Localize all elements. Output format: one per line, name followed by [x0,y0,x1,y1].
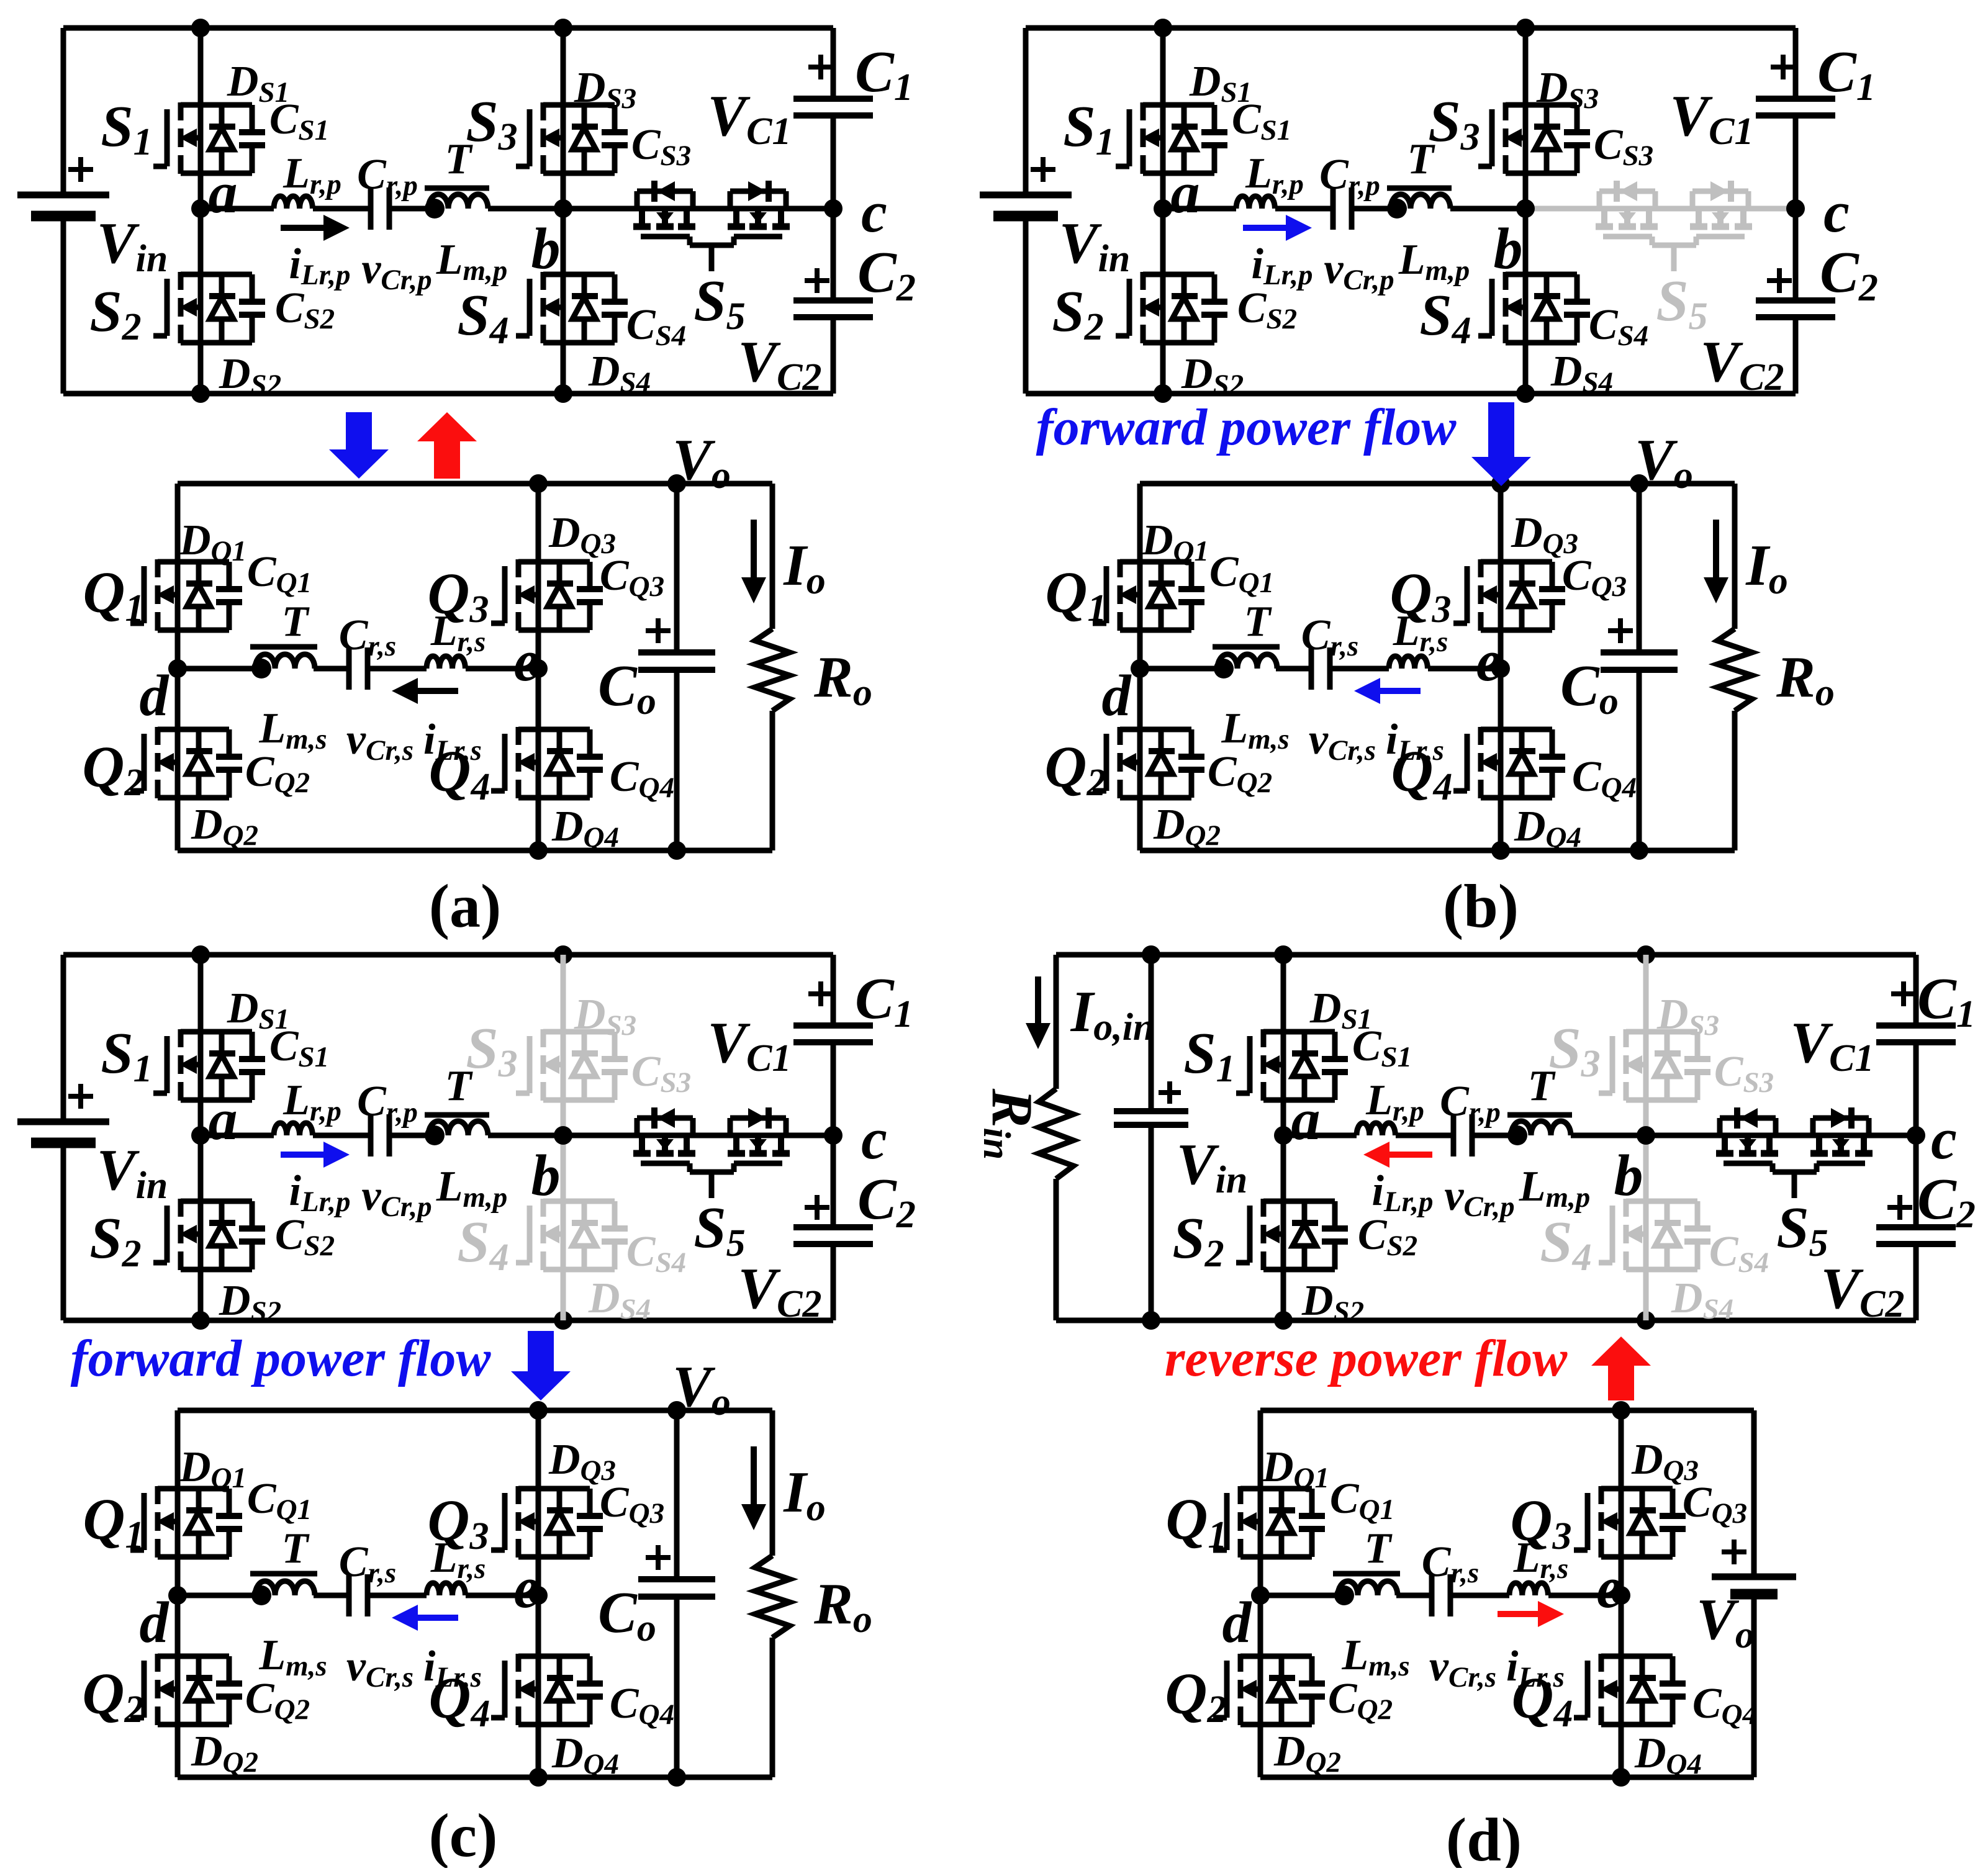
svg-text:Vo: Vo [672,1355,731,1423]
svg-text:iLr,p: iLr,p [289,1167,350,1218]
svg-text:Io,in: Io,in [1070,980,1155,1048]
svg-text:Lm,s: Lm,s [1221,705,1289,755]
svg-text:S1: S1 [1063,94,1114,163]
svg-text:CS3: CS3 [631,1048,691,1099]
svg-text:Lr,p: Lr,p [1245,150,1304,201]
svg-text:CQ1: CQ1 [247,548,312,599]
svg-text:DQ1: DQ1 [179,1443,246,1494]
svg-text:CS1: CS1 [269,1022,329,1073]
svg-text:c: c [1931,1107,1957,1171]
svg-text:S2: S2 [1052,279,1103,348]
svg-text:CS2: CS2 [275,284,335,335]
svg-text:S3: S3 [1428,89,1480,158]
svg-text:a: a [209,161,238,225]
svg-text:CS2: CS2 [1237,284,1297,335]
svg-text:Ro: Ro [813,1572,872,1641]
svg-text:S5: S5 [694,269,745,338]
svg-text:Lm,p: Lm,p [436,236,508,287]
svg-text:(b): (b) [1443,872,1519,940]
svg-text:(c): (c) [429,1801,498,1868]
svg-text:Lm,s: Lm,s [1341,1631,1409,1682]
svg-text:C1: C1 [855,40,913,109]
svg-text:Io: Io [1745,533,1788,602]
svg-text:VC1: VC1 [707,84,791,153]
svg-text:DS3: DS3 [574,991,636,1042]
svg-text:Vo: Vo [1635,428,1693,497]
svg-text:Co: Co [598,654,656,723]
svg-text:CS2: CS2 [275,1211,335,1262]
svg-text:CQ3: CQ3 [1683,1479,1747,1530]
svg-text:DS4: DS4 [588,1274,651,1325]
svg-text:C2: C2 [1820,240,1878,309]
svg-text:C1: C1 [855,967,913,1035]
svg-text:(d): (d) [1446,1805,1522,1868]
svg-text:Io: Io [783,533,826,602]
svg-text:b: b [531,1143,561,1208]
svg-text:c: c [861,1107,887,1171]
svg-text:Ro: Ro [813,645,872,714]
svg-text:DS4: DS4 [1550,348,1613,399]
svg-text:Vin: Vin [97,211,168,280]
svg-text:Io: Io [783,1460,826,1529]
svg-text:C2: C2 [857,1167,916,1236]
svg-text:S5: S5 [1776,1196,1828,1265]
svg-text:CQ3: CQ3 [600,1479,664,1530]
svg-text:CS1: CS1 [269,96,329,147]
svg-text:S1: S1 [101,1021,152,1090]
svg-text:CS4: CS4 [1709,1228,1769,1279]
svg-text:Lm,s: Lm,s [258,1631,327,1682]
svg-text:Lr,p: Lr,p [282,1076,341,1127]
svg-text:e: e [513,629,540,693]
svg-text:DQ4: DQ4 [1634,1729,1702,1780]
svg-text:iLr,s: iLr,s [423,1643,482,1693]
svg-text:CS3: CS3 [1714,1048,1774,1099]
svg-text:e: e [1476,629,1502,693]
svg-text:Lm,p: Lm,p [436,1163,508,1214]
svg-text:Q1: Q1 [83,561,145,629]
svg-text:S1: S1 [101,94,152,163]
svg-text:Ro: Ro [1776,645,1835,714]
svg-text:DS2: DS2 [219,1277,281,1328]
svg-text:S4: S4 [457,283,508,352]
svg-text:T: T [1365,1525,1393,1572]
svg-text:b: b [531,217,561,281]
svg-text:d: d [1222,1590,1253,1655]
svg-text:a: a [209,1088,238,1152]
svg-text:Q1: Q1 [1046,561,1107,629]
svg-text:Q2: Q2 [83,735,144,804]
svg-text:DS4: DS4 [1671,1274,1733,1325]
svg-text:CQ1: CQ1 [1330,1475,1394,1526]
svg-text:Lr,p: Lr,p [282,150,341,201]
svg-text:S2: S2 [89,1206,141,1275]
svg-text:T: T [1244,598,1273,646]
svg-text:VC2: VC2 [1820,1256,1904,1325]
svg-text:Cr,s: Cr,s [1422,1538,1479,1589]
svg-text:DQ1: DQ1 [1262,1443,1329,1494]
svg-text:e: e [1596,1556,1622,1620]
svg-text:CQ3: CQ3 [600,552,664,603]
svg-text:d: d [1102,664,1132,728]
svg-text:DQ1: DQ1 [1141,516,1209,567]
svg-text:DQ4: DQ4 [551,803,619,854]
svg-text:S3: S3 [466,89,517,158]
svg-text:Lm,s: Lm,s [258,705,327,755]
svg-text:C1: C1 [1817,40,1876,109]
svg-text:S2: S2 [89,279,141,348]
svg-text:C2: C2 [857,240,916,309]
svg-text:T: T [445,1062,474,1110]
svg-text:CS1: CS1 [1352,1022,1412,1073]
svg-text:S1: S1 [1183,1021,1235,1090]
svg-text:DS3: DS3 [574,64,636,115]
svg-text:vCr,p: vCr,p [361,245,431,296]
svg-text:d: d [140,1590,170,1655]
svg-text:S4: S4 [457,1210,508,1279]
svg-text:Cr,p: Cr,p [1440,1078,1501,1129]
svg-text:Lr,p: Lr,p [1365,1076,1424,1127]
svg-text:CQ4: CQ4 [1572,753,1637,804]
svg-text:DS2: DS2 [1301,1277,1364,1328]
svg-text:Lm,p: Lm,p [1519,1163,1591,1214]
svg-text:Lm,p: Lm,p [1398,236,1470,287]
svg-text:CQ2: CQ2 [1208,748,1272,799]
svg-text:iLr,s: iLr,s [423,716,482,767]
svg-text:VC1: VC1 [1790,1011,1874,1080]
svg-text:T: T [282,1525,310,1572]
svg-text:S5: S5 [1656,269,1707,338]
svg-text:S4: S4 [1540,1210,1591,1279]
svg-text:CQ4: CQ4 [610,1680,674,1731]
svg-text:CQ3: CQ3 [1562,552,1627,603]
svg-text:Co: Co [598,1580,656,1649]
svg-text:S2: S2 [1172,1206,1224,1275]
svg-text:Rin: Rin [975,1088,1044,1160]
svg-text:VC1: VC1 [707,1011,791,1080]
svg-text:e: e [513,1556,540,1620]
svg-text:forward power flow: forward power flow [1036,399,1457,456]
svg-text:CQ4: CQ4 [1692,1680,1757,1731]
svg-text:S5: S5 [694,1196,745,1265]
svg-text:iLr,p: iLr,p [1371,1167,1433,1218]
svg-text:DS4: DS4 [588,348,651,399]
svg-text:S4: S4 [1419,283,1471,352]
svg-text:Q2: Q2 [1045,735,1106,804]
svg-text:CS4: CS4 [1589,301,1648,352]
svg-text:CQ2: CQ2 [245,1675,310,1726]
svg-text:CS3: CS3 [1594,121,1653,172]
svg-text:Cr,p: Cr,p [357,1078,418,1129]
svg-text:Cr,p: Cr,p [1319,151,1380,202]
svg-text:b: b [1614,1143,1643,1208]
svg-text:forward power flow: forward power flow [71,1330,492,1387]
svg-text:DQ1: DQ1 [179,516,246,567]
svg-text:Co: Co [1560,654,1619,723]
svg-text:DQ2: DQ2 [1273,1728,1341,1779]
svg-text:iLr,p: iLr,p [289,240,350,291]
svg-text:T: T [1528,1062,1557,1110]
svg-text:DS2: DS2 [219,350,281,401]
svg-text:Q1: Q1 [83,1487,145,1556]
svg-text:T: T [445,135,474,183]
svg-text:Cr,p: Cr,p [357,151,418,202]
svg-text:Vo: Vo [672,428,731,497]
svg-text:Q2: Q2 [83,1662,144,1731]
svg-text:vCr,s: vCr,s [346,716,413,767]
svg-text:vCr,s: vCr,s [1429,1643,1496,1693]
svg-text:C1: C1 [1917,967,1976,1035]
svg-text:iLr,s: iLr,s [1506,1643,1565,1693]
svg-text:a: a [1171,161,1200,225]
svg-text:S3: S3 [466,1016,517,1085]
svg-text:Cr,s: Cr,s [1301,611,1358,662]
svg-text:VC2: VC2 [1700,330,1784,399]
svg-text:VC1: VC1 [1669,84,1753,153]
svg-text:d: d [140,664,170,728]
svg-text:Q1: Q1 [1166,1487,1227,1556]
svg-text:a: a [1291,1088,1321,1152]
svg-text:C2: C2 [1917,1167,1976,1236]
svg-text:T: T [1407,135,1436,183]
svg-text:DQ2: DQ2 [191,1728,258,1779]
svg-text:DS3: DS3 [1656,991,1719,1042]
svg-text:CS4: CS4 [626,1228,686,1279]
svg-text:Cr,s: Cr,s [339,611,396,662]
svg-text:Cr,s: Cr,s [339,1538,396,1589]
svg-text:CS1: CS1 [1232,96,1291,147]
svg-text:b: b [1494,217,1523,281]
svg-text:iLr,p: iLr,p [1251,240,1313,291]
svg-text:Vin: Vin [97,1138,168,1207]
svg-text:DQ2: DQ2 [191,801,258,852]
svg-text:Vin: Vin [1059,211,1130,280]
svg-text:CS4: CS4 [626,301,686,352]
svg-text:(a): (a) [429,872,502,940]
svg-text:CQ1: CQ1 [1209,548,1274,599]
svg-text:vCr,p: vCr,p [1444,1172,1514,1223]
svg-text:CQ4: CQ4 [610,753,674,804]
svg-text:Vin: Vin [1177,1132,1247,1201]
svg-text:T: T [282,598,310,646]
svg-text:iLr,s: iLr,s [1386,716,1444,767]
svg-text:CQ2: CQ2 [1328,1675,1393,1726]
svg-text:DS2: DS2 [1181,350,1244,401]
svg-text:CQ1: CQ1 [247,1475,312,1526]
svg-text:DQ4: DQ4 [1514,803,1581,854]
svg-text:VC2: VC2 [738,330,821,399]
svg-text:S3: S3 [1548,1016,1600,1085]
svg-text:vCr,s: vCr,s [1309,716,1376,767]
svg-text:VC2: VC2 [738,1256,821,1325]
svg-text:CQ2: CQ2 [245,748,310,799]
svg-text:vCr,p: vCr,p [1324,245,1394,296]
svg-text:c: c [1823,180,1850,245]
svg-text:c: c [861,180,887,245]
svg-text:DS3: DS3 [1536,64,1599,115]
svg-text:vCr,s: vCr,s [346,1643,413,1693]
svg-text:reverse power flow: reverse power flow [1165,1330,1568,1387]
svg-text:Q2: Q2 [1165,1662,1227,1731]
svg-text:vCr,p: vCr,p [361,1172,431,1223]
svg-text:CS2: CS2 [1358,1211,1417,1262]
svg-text:CS3: CS3 [631,121,691,172]
svg-text:DQ4: DQ4 [551,1729,619,1780]
svg-text:DQ2: DQ2 [1153,801,1221,852]
